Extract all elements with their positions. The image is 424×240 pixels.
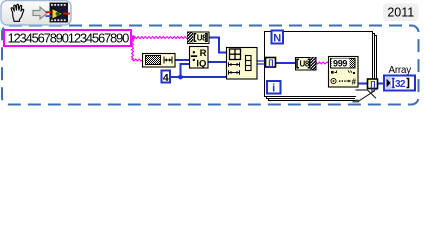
svg-text:N: N [273, 33, 281, 45]
svg-text:32: 32 [395, 79, 406, 90]
svg-text:999: 999 [333, 58, 347, 68]
svg-text:[]: [] [268, 58, 273, 68]
svg-text:#: # [352, 77, 357, 86]
svg-text:Array: Array [389, 65, 412, 76]
svg-text:[]: [] [370, 79, 375, 89]
svg-text:12345678901234567890: 12345678901234567890 [8, 31, 130, 46]
svg-text:2011: 2011 [387, 6, 414, 20]
svg-text:R: R [200, 48, 207, 59]
svg-text:IQ: IQ [196, 58, 206, 69]
svg-text:4: 4 [163, 72, 169, 84]
svg-text:i: i [272, 83, 275, 95]
